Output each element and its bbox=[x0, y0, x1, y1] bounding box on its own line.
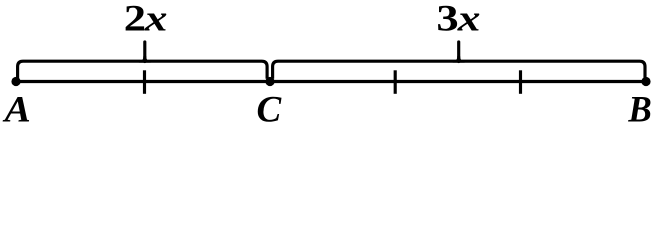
point A dot bbox=[11, 77, 20, 86]
brace CB pointer spike bbox=[457, 42, 460, 62]
tick mark first third of CB bbox=[394, 70, 397, 94]
point C dot bbox=[265, 77, 274, 86]
svg-text:3: 3 bbox=[436, 0, 458, 39]
brace AC pointer spike bbox=[143, 42, 146, 62]
svg-text:x: x bbox=[457, 0, 481, 39]
svg-text:C: C bbox=[257, 90, 283, 129]
wire: main segment A to B bbox=[16, 80, 646, 83]
svg-text:B: B bbox=[627, 90, 651, 129]
brace over CB bbox=[273, 61, 645, 79]
brace CB pointer flare bbox=[453, 56, 465, 63]
brace AC pointer flare bbox=[139, 56, 151, 63]
tick mark midpoint of AC bbox=[143, 70, 146, 94]
svg-text:A: A bbox=[3, 90, 31, 129]
point B dot bbox=[641, 77, 650, 86]
svg-text:x: x bbox=[144, 0, 168, 39]
brace over AC bbox=[18, 61, 268, 79]
tick mark second third of CB bbox=[519, 70, 522, 94]
svg-text:2: 2 bbox=[124, 0, 146, 39]
